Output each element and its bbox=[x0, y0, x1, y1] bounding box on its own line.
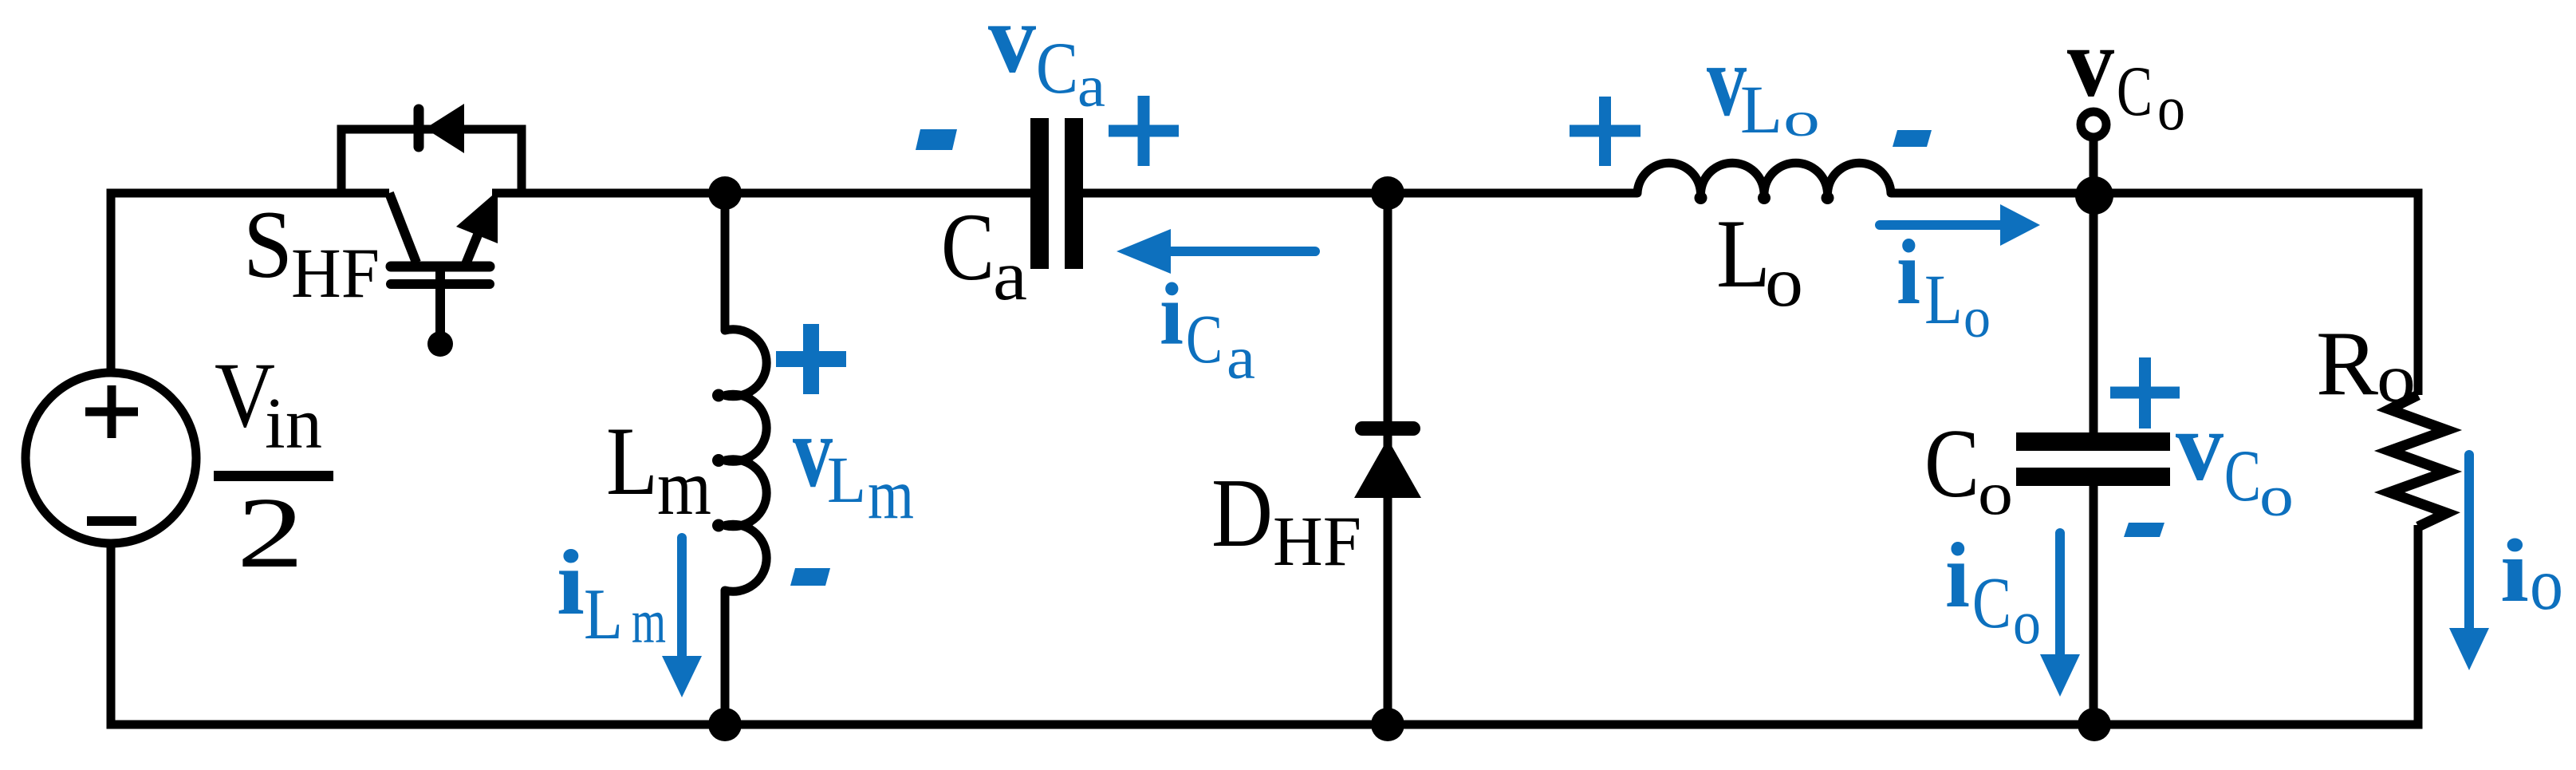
svg-text:i: i bbox=[557, 531, 585, 634]
svg-text:m: m bbox=[657, 443, 711, 531]
svg-text:C: C bbox=[2117, 52, 2153, 131]
svg-text:o: o bbox=[1765, 243, 1803, 322]
svg-text:L: L bbox=[1716, 199, 1771, 308]
svg-text:C: C bbox=[1036, 27, 1078, 109]
svg-text:m: m bbox=[632, 586, 666, 656]
svg-text:v: v bbox=[988, 0, 1036, 93]
svg-text:i: i bbox=[2500, 521, 2529, 621]
svg-text:o: o bbox=[2259, 464, 2294, 528]
svg-text:L: L bbox=[1924, 261, 1963, 339]
svg-text:o: o bbox=[1964, 286, 1991, 349]
svg-text:2: 2 bbox=[237, 477, 304, 589]
svg-text:i: i bbox=[1897, 221, 1920, 324]
svg-text:HF: HF bbox=[291, 235, 380, 313]
svg-text:o: o bbox=[2377, 339, 2416, 417]
svg-text:o: o bbox=[1978, 460, 2013, 527]
svg-text:C: C bbox=[2224, 435, 2261, 516]
svg-text:C: C bbox=[1186, 301, 1223, 377]
svg-text:C: C bbox=[1924, 409, 1979, 518]
svg-text:L: L bbox=[584, 574, 623, 654]
svg-text:a: a bbox=[1077, 54, 1105, 120]
svg-text:v: v bbox=[2176, 392, 2223, 501]
svg-text:o: o bbox=[1783, 93, 1820, 147]
svg-text:D: D bbox=[1211, 458, 1273, 567]
svg-text:L: L bbox=[1740, 71, 1782, 148]
svg-text:m: m bbox=[868, 456, 914, 534]
svg-text:v: v bbox=[2067, 8, 2114, 117]
svg-text:C: C bbox=[941, 194, 995, 301]
svg-text:a: a bbox=[993, 236, 1027, 315]
svg-text:i: i bbox=[1160, 265, 1184, 364]
svg-text:i: i bbox=[1945, 524, 1970, 627]
svg-text:in: in bbox=[265, 383, 322, 464]
svg-text:a: a bbox=[1227, 324, 1255, 392]
svg-text:S: S bbox=[243, 192, 293, 298]
svg-text:o: o bbox=[2530, 543, 2563, 626]
svg-text:C: C bbox=[1972, 563, 2011, 643]
svg-text:o: o bbox=[2013, 588, 2041, 657]
svg-text:L: L bbox=[606, 406, 658, 515]
svg-text:R: R bbox=[2316, 313, 2378, 415]
svg-text:HF: HF bbox=[1273, 503, 1361, 581]
svg-text:L: L bbox=[827, 443, 866, 516]
svg-text:o: o bbox=[2157, 73, 2185, 144]
